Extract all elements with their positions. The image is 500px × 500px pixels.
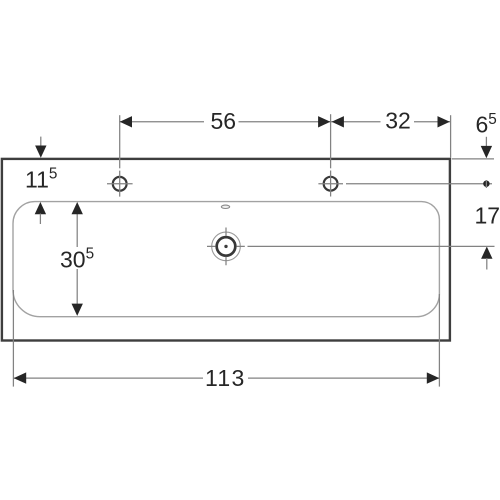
extension line above right hole bbox=[330, 114, 332, 168]
dimension line 56 bbox=[120, 121, 331, 123]
dimension line 32 bbox=[331, 121, 451, 123]
arrowhead 11.5 down bbox=[35, 146, 46, 158]
extension line above right corner bbox=[450, 115, 452, 157]
drain outer circle bbox=[212, 232, 241, 261]
washbasin outer outline bbox=[2, 159, 450, 341]
arrow 17 tail bbox=[486, 258, 488, 270]
svg-text:305: 305 bbox=[60, 246, 94, 273]
faucet hole right crosshair bbox=[318, 171, 343, 197]
arrow 6.5 tail bbox=[485, 137, 487, 148]
drain centerline extension right bbox=[248, 245, 495, 247]
faucet hole right bbox=[324, 177, 338, 191]
dimension line 113 bbox=[13, 377, 439, 379]
overflow slot bbox=[221, 205, 229, 208]
svg-text:32: 32 bbox=[385, 108, 411, 134]
arrowhead 32 left bbox=[332, 116, 344, 127]
arrowhead 30.5 down bbox=[72, 304, 83, 316]
faucet hole left crosshair bbox=[107, 171, 133, 197]
svg-text:113: 113 bbox=[205, 365, 246, 391]
centerline dot terminator bbox=[483, 181, 489, 187]
extension line above left hole bbox=[119, 115, 121, 168]
dimension line 30.5 vertical bbox=[76, 205, 78, 313]
drain inner circle bbox=[217, 237, 236, 256]
arrowhead 6.5 down bbox=[481, 146, 492, 158]
arrowhead 17 up bbox=[481, 247, 492, 259]
basin bowl inner outline bbox=[13, 202, 439, 317]
svg-text:56: 56 bbox=[211, 108, 237, 134]
dot tick bbox=[485, 180, 487, 188]
top edge extension right bbox=[452, 158, 494, 160]
svg-text:115: 115 bbox=[25, 166, 57, 193]
arrowhead 11.5 up bbox=[35, 202, 46, 214]
svg-text:17: 17 bbox=[475, 202, 500, 228]
drain center dot bbox=[224, 245, 227, 248]
drain crosshair bbox=[207, 228, 245, 266]
hole centerline extension right bbox=[346, 183, 492, 185]
arrow 11.5 bottom tail bbox=[39, 214, 41, 225]
extension line 113 right bbox=[438, 294, 440, 387]
svg-text:65: 65 bbox=[476, 111, 497, 137]
arrowhead 56 left bbox=[120, 116, 132, 127]
arrowhead 113 right bbox=[427, 372, 440, 383]
arrowhead 56 right bbox=[318, 116, 330, 127]
arrowhead 113 left bbox=[14, 372, 27, 383]
extension line 113 left bbox=[12, 290, 14, 387]
arrowhead 30.5 up bbox=[72, 202, 83, 214]
arrow 11.5 top tail bbox=[40, 137, 42, 147]
arrowhead 32 right bbox=[438, 116, 450, 127]
faucet hole left bbox=[113, 177, 127, 191]
